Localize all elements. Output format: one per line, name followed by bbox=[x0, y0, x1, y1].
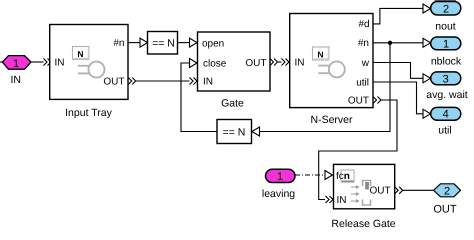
signal arrowhead at Release Gate fcn bbox=[325, 171, 333, 180]
svg-text:nblock: nblock bbox=[431, 55, 462, 67]
svg-text:#d: #d bbox=[358, 19, 369, 30]
svg-text:3: 3 bbox=[443, 73, 449, 85]
svg-text:util: util bbox=[356, 78, 369, 89]
svg-text:N-Server: N-Server bbox=[310, 114, 353, 126]
svg-text:OUT: OUT bbox=[433, 203, 457, 215]
signal arrowhead at ==N (bottom) input bbox=[252, 127, 260, 136]
svg-text:nout: nout bbox=[435, 20, 456, 32]
svg-text:util: util bbox=[438, 125, 451, 137]
block Gate bbox=[198, 32, 271, 91]
svg-text:OUT: OUT bbox=[103, 77, 124, 88]
svg-text:OUT: OUT bbox=[348, 96, 369, 107]
wire Input Tray #n to ==N (top) bbox=[128, 42, 140, 44]
icon gate brackets (Release Gate) bbox=[363, 181, 371, 187]
svg-text:Gate: Gate bbox=[221, 98, 244, 110]
output port 1 (nblock) bbox=[431, 37, 461, 50]
svg-text:1: 1 bbox=[443, 38, 449, 50]
block Input Tray bbox=[50, 25, 128, 100]
signal arrowhead at Gate close bbox=[190, 59, 198, 68]
wire Gate OUT to N-Server IN bbox=[270, 59, 278, 66]
svg-text:IN: IN bbox=[55, 58, 65, 69]
svg-text:fcn: fcn bbox=[336, 171, 350, 182]
output port 4 (util) bbox=[431, 107, 461, 120]
signal arrowhead at Gate open bbox=[190, 38, 198, 47]
block ==N (bottom) bbox=[217, 120, 252, 144]
icon gate arrows (Release Gate) bbox=[351, 185, 360, 203]
entity chevron at Release Gate IN bbox=[326, 196, 334, 203]
block ==N (top) bbox=[148, 32, 178, 55]
gray clipped bar above port 2 bbox=[435, 0, 457, 2]
wire N-Server w to out port 3 bbox=[373, 63, 423, 79]
block N-Server bbox=[290, 14, 373, 108]
svg-text:avg. wait: avg. wait bbox=[426, 89, 468, 101]
entity chevron at Input Tray IN bbox=[44, 59, 52, 66]
svg-text:open: open bbox=[202, 38, 224, 49]
wire N-Server #d to out port 2 bbox=[373, 8, 423, 24]
signal arrowhead at out port 3 bbox=[423, 74, 431, 83]
block Release Gate bbox=[334, 164, 395, 208]
icon server circle (N-Server) bbox=[329, 61, 345, 77]
svg-text:IN: IN bbox=[337, 195, 347, 206]
wire ==N (top) to Gate open bbox=[178, 42, 190, 44]
svg-text:IN: IN bbox=[10, 74, 21, 86]
svg-text:close: close bbox=[203, 59, 227, 70]
branch wire #n to ==N (bottom) bbox=[260, 43, 391, 132]
svg-text:1: 1 bbox=[13, 58, 19, 70]
wire Input Tray OUT to Gate IN bbox=[128, 78, 136, 85]
wire N-Server OUT to Release Gate IN bbox=[373, 97, 381, 104]
icon server circle (Input Tray) bbox=[89, 62, 105, 78]
svg-text:== N: == N bbox=[152, 37, 175, 49]
output port 3 (avg. wait) bbox=[431, 72, 461, 85]
input port leaving "1" bbox=[266, 169, 296, 182]
entity chevron at N-Server IN bbox=[282, 59, 290, 66]
svg-text:#n: #n bbox=[358, 38, 369, 49]
wire stub left of In1 bbox=[0, 61, 3, 63]
svg-text:2: 2 bbox=[443, 4, 449, 16]
svg-text:OUT: OUT bbox=[245, 58, 266, 69]
svg-text:Release Gate: Release Gate bbox=[331, 218, 395, 230]
svg-text:N: N bbox=[77, 49, 83, 59]
signal arrowhead at out port 4 bbox=[423, 109, 431, 118]
wire In1 to Input Tray IN bbox=[31, 61, 44, 63]
wire N-Server util to out port 4 bbox=[373, 82, 423, 114]
svg-text:leaving: leaving bbox=[262, 188, 295, 200]
signal arrowhead at ==N (top) input bbox=[140, 38, 148, 47]
wire ==N (bottom) to Gate close bbox=[181, 63, 217, 132]
output port OUT "2" bbox=[434, 184, 461, 197]
svg-text:Input Tray: Input Tray bbox=[65, 107, 112, 119]
svg-text:N: N bbox=[317, 49, 323, 59]
svg-text:== N: == N bbox=[223, 126, 246, 138]
signal arrowhead at out port 1 bbox=[423, 38, 431, 47]
junction dot on #n wire bbox=[388, 41, 392, 45]
signal arrowhead at out port 2 bbox=[423, 4, 431, 13]
output port 2 (nout) bbox=[431, 2, 461, 16]
svg-text:4: 4 bbox=[443, 109, 449, 121]
svg-text:2: 2 bbox=[444, 185, 450, 197]
wire N-Server #n to out port 1 bbox=[373, 42, 423, 44]
icon N box (N-Server) bbox=[313, 47, 330, 60]
svg-text:IN: IN bbox=[203, 77, 213, 88]
input port In1 "1" bbox=[2, 56, 31, 70]
svg-text:w: w bbox=[361, 58, 370, 69]
dash-dot wire leaving to Release Gate fcn bbox=[295, 174, 325, 176]
svg-text:OUT: OUT bbox=[370, 186, 391, 197]
icon N box (Input Tray) bbox=[73, 47, 90, 60]
svg-text:#n: #n bbox=[113, 38, 124, 49]
icon N box (Release Gate) bbox=[341, 170, 354, 182]
icon gate door bar (Release Gate) bbox=[365, 182, 369, 190]
wire Release Gate OUT to port OUT bbox=[395, 187, 403, 194]
entity chevron at Gate IN bbox=[190, 78, 198, 85]
svg-text:1: 1 bbox=[277, 171, 283, 183]
svg-text:IN: IN bbox=[295, 58, 305, 69]
